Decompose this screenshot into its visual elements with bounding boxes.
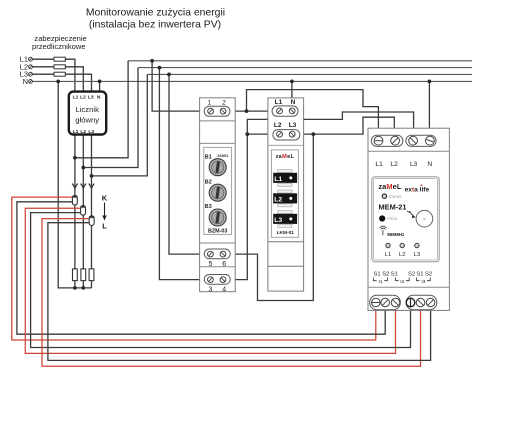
fuse holder B3 xyxy=(209,209,226,226)
svg-text:przedlicznikowe: przedlicznikowe xyxy=(32,42,86,51)
BZM terminal block 3-4 xyxy=(204,275,230,285)
node N LKM tap xyxy=(290,80,294,84)
svg-text:L3: L3 xyxy=(274,217,282,224)
svg-text:S2: S2 xyxy=(425,271,432,277)
CT secondary wire S1 red CT3 to MEM S1 xyxy=(42,219,421,367)
wire L2 row xyxy=(32,67,83,92)
svg-text:L1: L1 xyxy=(73,129,79,135)
svg-text:L1: L1 xyxy=(274,176,282,183)
MEM screw S1 (I2) xyxy=(391,298,400,307)
LKM indicator window L1 xyxy=(273,173,297,183)
bus L1 xyxy=(128,60,472,62)
svg-text:2: 2 xyxy=(222,100,226,107)
wire A BZM t2 branch to MEM L1 xyxy=(247,90,379,141)
MEM terminal block S1-S2-S1 xyxy=(370,295,401,309)
bus L3 xyxy=(147,73,472,75)
node N-meter junction xyxy=(98,80,102,84)
meter box outline xyxy=(69,92,106,135)
svg-text:STATUS: STATUS xyxy=(389,195,402,199)
svg-text:L1: L1 xyxy=(385,252,391,258)
wire branch L3 below meter to bus L3 xyxy=(92,74,148,175)
arrow on L1 wire xyxy=(72,184,77,189)
wire N row xyxy=(32,80,472,82)
MEM terminal block L1-L2 xyxy=(371,135,403,146)
module LKM-01 xyxy=(268,98,304,291)
svg-text:K: K xyxy=(102,193,108,202)
terminal L2 xyxy=(29,65,33,69)
wire BZM t6 to LKM L3 node xyxy=(223,134,313,300)
meter Licznik glowny xyxy=(69,92,106,135)
svg-text:L2: L2 xyxy=(390,161,398,168)
MEM screw L3 xyxy=(409,136,418,145)
wire branch L1 below meter to bus L1 xyxy=(75,61,128,158)
wire bus L2 tap to BZM terminal 3 xyxy=(159,68,223,280)
MEM antenna icon 868MHz xyxy=(380,226,387,235)
CT secondary wire S1 red CT1 to MEM S1 xyxy=(12,197,376,340)
MEM screw S2 (I3) xyxy=(426,298,435,307)
svg-text:MEM-21: MEM-21 xyxy=(379,203,407,212)
svg-text:exta life: exta life xyxy=(405,186,430,193)
svg-text:S1: S1 xyxy=(391,271,398,277)
svg-text:L2: L2 xyxy=(274,196,282,203)
CT secondary wire S2 black CT2 to MEM S2 xyxy=(31,213,411,348)
wire N down to load bus xyxy=(58,81,91,288)
svg-text:L1: L1 xyxy=(275,99,283,106)
svg-text:I1: I1 xyxy=(378,279,382,285)
fuse holder B2 xyxy=(209,184,226,201)
node bus2 tap xyxy=(158,66,162,70)
svg-text:S2: S2 xyxy=(382,271,389,277)
svg-text:L2: L2 xyxy=(80,94,86,100)
MEM screw S1 (I1) xyxy=(372,298,381,307)
svg-text:zaMeL: zaMeL xyxy=(276,154,295,160)
svg-text:LKM-01: LKM-01 xyxy=(277,230,295,236)
wire bus L3 tap to BZM terminal 5 xyxy=(169,74,223,254)
BZM terminal 3 xyxy=(208,277,214,283)
svg-text:L2: L2 xyxy=(399,252,405,258)
terminal N xyxy=(29,80,33,84)
wire meter L2 output down through CT2 to load xyxy=(82,135,84,288)
bracket label I1 xyxy=(374,278,388,281)
MEM STATUS LED xyxy=(382,194,386,198)
node bus1 tap xyxy=(150,59,154,63)
MEM terminal block S2-S1-S2 xyxy=(406,295,437,309)
MEM screw N xyxy=(426,136,435,145)
svg-text:główny: główny xyxy=(75,115,99,124)
node L2 branch junction xyxy=(81,166,85,170)
arrow on L2 wire xyxy=(81,184,86,189)
wire LKM L2-L3 feed xyxy=(247,133,313,135)
svg-text:S1: S1 xyxy=(416,271,423,277)
BZM terminal 5 xyxy=(208,251,214,257)
BZM terminal 1 xyxy=(208,108,214,114)
BZM terminal block 1-2 xyxy=(204,106,230,116)
svg-text:S1: S1 xyxy=(374,271,381,277)
svg-text:(instalacja bez inwertera PV): (instalacja bez inwertera PV) xyxy=(89,19,221,30)
svg-text:I3: I3 xyxy=(421,279,425,285)
LKM indicator window L3 xyxy=(273,214,297,224)
svg-text:ZAMEL: ZAMEL xyxy=(217,154,229,158)
svg-text:B2: B2 xyxy=(205,180,212,186)
LKM terminal L3 xyxy=(289,131,295,137)
fuse F1 xyxy=(54,57,65,61)
MEM screw S2 (I1) xyxy=(381,298,390,307)
wire meter L3 output down through CT3 to load xyxy=(91,135,93,288)
module MEM-21 xyxy=(368,128,449,310)
bracket label I3 xyxy=(417,278,431,281)
MEM PROG LED xyxy=(379,215,385,221)
svg-text:868MHz: 868MHz xyxy=(387,232,405,237)
svg-text:L3: L3 xyxy=(289,122,297,129)
LKM terminal L2 xyxy=(277,131,283,137)
MEM screw L2 xyxy=(391,136,400,145)
MEM program button xyxy=(416,210,433,227)
MEM front panel xyxy=(372,177,439,262)
MEM press icon xyxy=(407,211,413,215)
BZM terminal 4 xyxy=(220,277,226,283)
node wire A tap xyxy=(245,109,249,113)
svg-text:Licznik: Licznik xyxy=(75,105,99,114)
node L1 branch junction xyxy=(73,156,77,160)
LKM terminal block L2-L3 xyxy=(273,130,300,140)
svg-text:zaMeL: zaMeL xyxy=(378,182,401,191)
svg-text:BZM-03: BZM-03 xyxy=(208,229,227,235)
svg-text:N: N xyxy=(97,94,101,100)
wire N drop to meter xyxy=(99,81,101,92)
svg-text:N: N xyxy=(427,161,432,168)
bus L2 xyxy=(138,67,472,69)
node load1 junction xyxy=(73,286,77,290)
CT secondary wire S2 black CT3 to MEM S2 xyxy=(48,223,431,361)
current transformer CT2 xyxy=(81,206,86,216)
wire B BZM t4 to MEM L3 xyxy=(223,112,414,280)
BZM terminal block 5-6 xyxy=(204,249,230,259)
MEM screw S2 (I2) xyxy=(406,298,415,307)
MEM screw L1 xyxy=(374,136,383,145)
load fuse L2 xyxy=(81,269,86,281)
CT secondary wire S1 red CT2 to MEM S1 xyxy=(25,208,395,353)
svg-text:L1: L1 xyxy=(73,94,79,100)
wire meter L1 output down through CT1 to load xyxy=(74,135,76,288)
node bus3 tap xyxy=(167,73,171,77)
bracket label I2 xyxy=(396,278,410,281)
MEM screw S1 (I3) xyxy=(416,298,425,307)
wire branch L2 below meter to bus L2 xyxy=(83,68,138,168)
svg-text:I2: I2 xyxy=(400,279,404,285)
LKM terminal L1 xyxy=(277,108,283,114)
wire L3 row xyxy=(32,74,91,92)
fuse holder B1 xyxy=(209,159,226,176)
wire L1 row xyxy=(32,59,75,92)
fuse F3 xyxy=(54,72,65,76)
svg-text:B3: B3 xyxy=(205,204,212,210)
svg-text:1: 1 xyxy=(207,100,211,107)
svg-text:S2: S2 xyxy=(408,271,415,277)
load fuse L3 xyxy=(89,269,94,281)
node L3 branch junction xyxy=(90,174,94,178)
svg-text:Monitorowanie zużycia energii: Monitorowanie zużycia energii xyxy=(86,7,225,18)
svg-text:4: 4 xyxy=(222,287,226,294)
svg-text:L3: L3 xyxy=(88,129,94,135)
MEM LED L2 xyxy=(400,243,404,247)
node load2 junction xyxy=(81,286,85,290)
svg-text:B1: B1 xyxy=(205,154,212,160)
wire bus L1 tap to BZM terminal 1 xyxy=(152,61,279,111)
BZM terminal 2 xyxy=(220,108,226,114)
MEM LED L3 xyxy=(415,243,419,247)
node LKM L3 junction xyxy=(311,132,315,136)
svg-text:L1: L1 xyxy=(375,161,383,168)
svg-text:L3: L3 xyxy=(410,161,418,168)
svg-text:N: N xyxy=(291,99,296,106)
module BZM-03 xyxy=(200,98,236,294)
svg-text:L: L xyxy=(102,222,107,231)
node LKM L2 feed tap xyxy=(245,132,249,136)
LKM terminal N xyxy=(289,108,295,114)
BZM terminal 6 xyxy=(220,251,226,257)
wire C LKM L3 node to MEM L2 xyxy=(313,117,394,141)
wire N bus drop to MEM N xyxy=(428,81,430,140)
node N MEM tap xyxy=(428,80,432,84)
svg-text:L3: L3 xyxy=(88,94,94,100)
load fuse L1 xyxy=(73,269,78,281)
node N-load junction xyxy=(56,80,60,84)
svg-text:L3: L3 xyxy=(414,252,420,258)
MEM terminal block L3-N xyxy=(406,135,436,146)
MEM LED L1 xyxy=(386,243,390,247)
svg-text:L2: L2 xyxy=(80,129,86,135)
current transformer CT1 xyxy=(72,195,77,205)
arrow on L3 wire xyxy=(89,184,94,189)
K L direction arrow xyxy=(102,193,108,230)
svg-text:3: 3 xyxy=(209,287,213,294)
fuse F2 xyxy=(54,65,65,69)
LKM indicator window L2 xyxy=(273,193,297,203)
LKM terminal block L1-N xyxy=(272,106,298,116)
CT secondary wire S2 black CT1 to MEM S2 xyxy=(17,202,385,334)
current transformer CT3 xyxy=(89,216,94,226)
terminal L3 xyxy=(29,72,33,76)
svg-text:N: N xyxy=(23,77,28,86)
wire N bus drop to LKM N xyxy=(291,81,293,111)
svg-text:PROG.: PROG. xyxy=(387,217,398,221)
svg-text:L2: L2 xyxy=(274,122,282,129)
terminal L1 xyxy=(29,57,33,61)
